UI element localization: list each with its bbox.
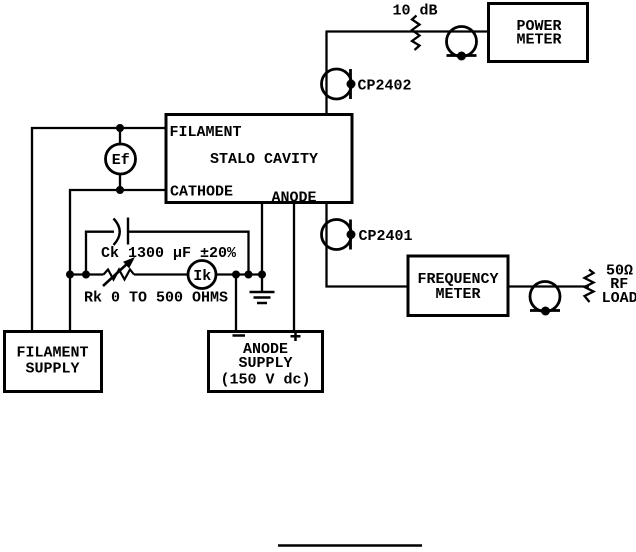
junction: Ck branch right xyxy=(245,271,253,279)
svg-text:Ck 1300 µF ±20%: Ck 1300 µF ±20% xyxy=(101,245,237,262)
svg-text:Ef: Ef xyxy=(112,152,130,169)
detector mount at power meter input xyxy=(447,27,477,61)
svg-text:METER: METER xyxy=(516,32,561,49)
wire: filament lead to filament supply xyxy=(32,128,166,330)
load resistor 50 ohm RF LOAD xyxy=(585,263,636,308)
capacitor Ck with branch xyxy=(86,218,249,275)
junction: anode supply negative xyxy=(232,271,240,279)
svg-text:CP2401: CP2401 xyxy=(359,228,413,245)
wire: anode supply negative lead xyxy=(235,275,237,331)
variable resistor Rk xyxy=(84,257,228,307)
wire: anode supply positive lead xyxy=(293,204,295,330)
junction: ground xyxy=(258,271,266,279)
wire: cathode bus xyxy=(70,273,262,275)
figure rule xyxy=(278,544,422,547)
coupler probe CP2401 xyxy=(322,220,413,250)
wire: RF output to frequency meter xyxy=(327,204,407,287)
junction: Ck branch left xyxy=(82,271,90,279)
box: STALO CAVITY xyxy=(166,115,352,207)
box: POWER METER xyxy=(489,4,588,62)
junction: filament / Ef xyxy=(116,124,124,132)
svg-text:CP2402: CP2402 xyxy=(358,78,412,95)
ground xyxy=(250,275,275,304)
box: FREQUENCY METER xyxy=(408,256,508,316)
attenuator 10 dB xyxy=(393,3,438,51)
svg-text:SUPPLY: SUPPLY xyxy=(238,355,292,372)
wire: frequency meter to RF load xyxy=(508,285,589,287)
svg-text:STALO CAVITY: STALO CAVITY xyxy=(210,151,318,168)
svg-text:Ik: Ik xyxy=(193,268,211,285)
meter Ik xyxy=(188,261,216,289)
detector mount on load line xyxy=(530,282,560,316)
svg-text:METER: METER xyxy=(435,286,480,303)
svg-text:10 dB: 10 dB xyxy=(393,3,438,20)
svg-text:CATHODE: CATHODE xyxy=(170,184,233,201)
svg-text:(150 V dc): (150 V dc) xyxy=(220,372,310,389)
svg-text:ANODE: ANODE xyxy=(272,190,317,207)
junction: cathode lead / bus xyxy=(66,271,74,279)
svg-text:LOAD: LOAD xyxy=(602,290,636,307)
meter Ef xyxy=(106,128,136,190)
wire: cathode lead to filament supply xyxy=(70,190,166,330)
wire: cavity bottom to cathode bus xyxy=(261,204,263,275)
box: ANODE SUPPLY xyxy=(209,332,323,392)
svg-text:FILAMENT: FILAMENT xyxy=(170,124,242,141)
wire: STALO output up to attenuator line xyxy=(325,32,327,114)
wire: to power meter xyxy=(326,30,488,32)
junction: cathode / Ef xyxy=(116,186,124,194)
svg-text:FILAMENT: FILAMENT xyxy=(16,345,88,362)
coupler probe CP2402 xyxy=(322,69,412,99)
svg-text:SUPPLY: SUPPLY xyxy=(25,361,79,378)
svg-text:Rk 0 TO 500 OHMS: Rk 0 TO 500 OHMS xyxy=(84,290,228,307)
box: FILAMENT SUPPLY xyxy=(5,332,102,392)
